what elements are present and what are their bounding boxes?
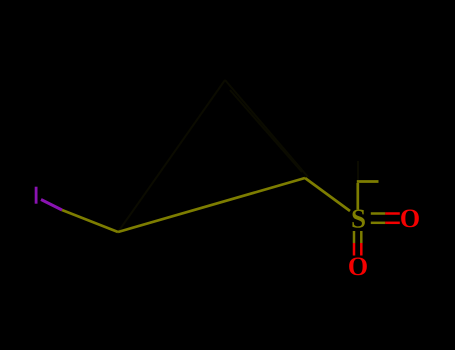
bond I-C1 iodine half	[41, 200, 62, 211]
S=O down double bond (S-half olive)	[353, 231, 356, 243]
faint ghost duplicate: left leg	[118, 80, 358, 232]
svg-text:O: O	[400, 204, 420, 233]
bond C1-C2 long ascent	[118, 178, 305, 232]
svg-text:S: S	[351, 204, 366, 234]
bond C2-S	[305, 178, 350, 211]
S=O right double bond (O-half red)	[385, 212, 400, 215]
S=O right double bond (S-half olive)	[371, 212, 386, 215]
S=O down double bond (O-half red)	[353, 243, 356, 256]
bond I-C1 carbon half	[62, 210, 118, 232]
iodine label I (plain bar glyph)	[35, 187, 38, 204]
svg-text:O: O	[348, 252, 368, 281]
bond S-CH2 vertical	[356, 183, 359, 210]
bond CH2-CH3 horizontal	[357, 180, 379, 183]
